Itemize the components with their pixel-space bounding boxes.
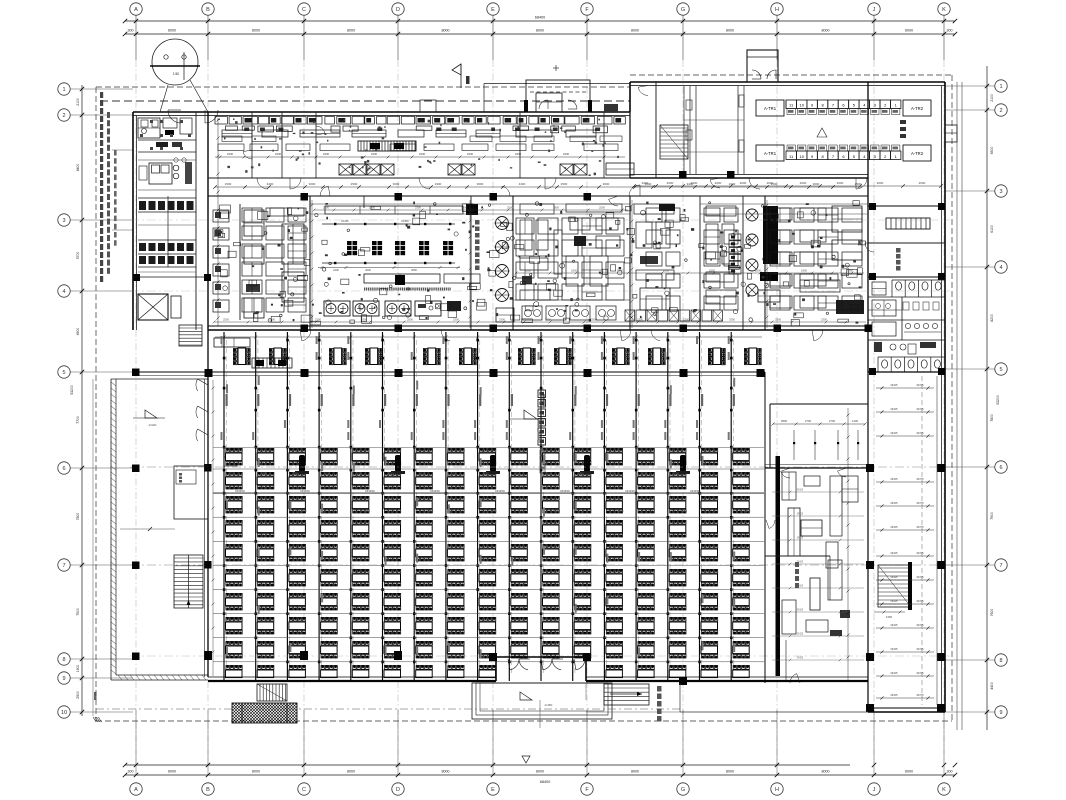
dining table row 9 xyxy=(226,641,750,658)
svg-text:E: E xyxy=(491,787,495,793)
svg-text:1: 1 xyxy=(999,84,1002,90)
kitchen south wall xyxy=(208,325,872,333)
svg-text:2300: 2300 xyxy=(681,509,688,513)
bottom dimension lines xyxy=(123,710,957,784)
svg-text:3300: 3300 xyxy=(371,152,378,156)
svg-text:8: 8 xyxy=(62,657,65,663)
bottom axis bubbles xyxy=(130,783,950,795)
svg-text:1500: 1500 xyxy=(225,182,232,186)
roof overhang dashed outline xyxy=(96,75,962,730)
svg-text:1900: 1900 xyxy=(729,182,736,186)
svg-text:3300: 3300 xyxy=(775,318,781,322)
svg-text:9: 9 xyxy=(62,676,65,682)
svg-text:1800: 1800 xyxy=(663,269,669,273)
svg-text:53200: 53200 xyxy=(70,385,74,395)
svg-text:2500: 2500 xyxy=(407,318,413,322)
dining south wall east segment xyxy=(586,677,868,681)
svg-text:2900: 2900 xyxy=(76,691,80,699)
left bottom hatch mark xyxy=(93,692,101,722)
svg-text:DN25: DN25 xyxy=(797,513,804,516)
electrical block door arcs xyxy=(638,86,867,190)
east kitchen counter grid xyxy=(646,208,862,310)
drawing frame grid xyxy=(123,16,957,765)
svg-text:2300: 2300 xyxy=(514,472,520,476)
svg-text:3000: 3000 xyxy=(477,182,484,186)
svg-text:DN50: DN50 xyxy=(401,219,409,223)
transformer row A-TR1 xyxy=(756,100,931,116)
svg-text:7: 7 xyxy=(999,563,1002,569)
svg-text:DN75: DN75 xyxy=(917,525,924,529)
svg-text:DN75: DN75 xyxy=(917,551,924,555)
svg-text:4400: 4400 xyxy=(990,682,994,690)
svg-text:2: 2 xyxy=(62,113,65,119)
svg-text:2300: 2300 xyxy=(237,509,244,513)
svg-text:DN25: DN25 xyxy=(797,633,804,636)
svg-text:3000: 3000 xyxy=(309,182,316,186)
svg-text:8000: 8000 xyxy=(822,770,830,774)
west wing stall band 2 xyxy=(138,240,196,267)
kitchen striped counter xyxy=(358,141,416,151)
svg-text:H: H xyxy=(775,787,779,793)
elevator shaft xyxy=(138,294,181,320)
svg-text:6000: 6000 xyxy=(905,770,913,774)
svg-text:DN25: DN25 xyxy=(891,407,898,411)
west terrace edge hatch xyxy=(111,382,206,680)
dining south wall west segment xyxy=(208,677,496,681)
svg-text:2500: 2500 xyxy=(351,182,358,186)
svg-text:E: E xyxy=(491,7,495,13)
svg-text:1800: 1800 xyxy=(269,318,275,322)
heavy equipment dark band east kitchen xyxy=(659,204,780,302)
svg-text:B: B xyxy=(206,787,210,793)
svg-text:2500: 2500 xyxy=(771,182,778,186)
svg-text:3300: 3300 xyxy=(275,152,282,156)
electrical block corridor shafts xyxy=(684,86,744,174)
kitchen north equipment row xyxy=(225,126,607,133)
dining slope arrow xyxy=(510,410,545,419)
svg-text:1800: 1800 xyxy=(461,206,467,210)
svg-text:1800: 1800 xyxy=(553,206,559,210)
svg-text:8000: 8000 xyxy=(536,29,544,33)
svg-text:DN25: DN25 xyxy=(891,501,898,505)
svg-text:2500: 2500 xyxy=(507,206,513,210)
steam room label column xyxy=(475,220,480,270)
southwest exterior stair hatched block xyxy=(208,703,333,723)
dining upper table row xyxy=(233,348,761,365)
svg-text:2300: 2300 xyxy=(705,472,711,476)
dining pipe text specks xyxy=(226,376,735,658)
svg-text:2300: 2300 xyxy=(453,318,459,322)
east corridor walls xyxy=(868,372,945,712)
svg-text:6500: 6500 xyxy=(990,147,994,155)
svg-text:2300: 2300 xyxy=(369,206,375,210)
electrical room walls xyxy=(630,82,868,178)
svg-text:DN25: DN25 xyxy=(797,537,804,540)
svg-text:2500: 2500 xyxy=(709,269,715,273)
svg-text:3300: 3300 xyxy=(563,152,570,156)
svg-text:3300: 3300 xyxy=(419,152,426,156)
kitchen X-box equipment row xyxy=(339,163,634,175)
svg-text:2300: 2300 xyxy=(293,472,299,476)
svg-text:DN25: DN25 xyxy=(891,525,898,529)
svg-text:2500: 2500 xyxy=(855,182,862,186)
prep room counter grid west xyxy=(242,208,306,312)
svg-text:2000: 2000 xyxy=(667,181,674,185)
svg-text:2300: 2300 xyxy=(744,509,751,513)
building outer wall west wing xyxy=(133,112,137,330)
svg-text:8000: 8000 xyxy=(536,770,544,774)
stove row xyxy=(324,301,461,316)
svg-text:A-TR2: A-TR2 xyxy=(911,151,924,156)
svg-text:2000: 2000 xyxy=(877,181,884,185)
svg-text:300: 300 xyxy=(128,770,134,774)
svg-text:3000: 3000 xyxy=(813,182,820,186)
svg-text:6: 6 xyxy=(62,466,65,472)
svg-text:2500: 2500 xyxy=(755,269,761,273)
svg-text:DN75: DN75 xyxy=(917,431,924,435)
svg-text:10: 10 xyxy=(61,710,67,716)
svg-text:2300: 2300 xyxy=(315,318,321,322)
svg-text:DN150: DN150 xyxy=(690,489,700,493)
dining table row 8 xyxy=(226,617,750,634)
svg-text:DN150: DN150 xyxy=(300,489,310,493)
southeast room riser lines xyxy=(793,430,859,460)
svg-text:2300: 2300 xyxy=(578,472,584,476)
svg-text:1800: 1800 xyxy=(525,269,531,273)
southeast vertical dim column xyxy=(847,408,850,680)
cooking island equipment clusters xyxy=(347,241,453,255)
svg-text:1: 1 xyxy=(62,87,65,93)
svg-text:-0.020: -0.020 xyxy=(148,423,157,427)
svg-text:J: J xyxy=(873,7,876,13)
southeast room partition wall xyxy=(765,556,830,600)
svg-text:DN25: DN25 xyxy=(797,561,804,564)
kitchen right rooms xyxy=(634,204,864,314)
svg-text:DN75: DN75 xyxy=(917,671,924,675)
svg-text:8000: 8000 xyxy=(252,770,260,774)
kitchen dim row mid xyxy=(215,152,625,159)
svg-text:2700: 2700 xyxy=(805,419,812,423)
svg-text:8: 8 xyxy=(999,658,1002,664)
prep room west fixtures xyxy=(213,208,304,318)
mid kitchen counter grid xyxy=(516,218,624,300)
dining table row 7 xyxy=(226,593,750,610)
svg-text:2300: 2300 xyxy=(610,472,616,476)
east corridor columns xyxy=(866,464,945,712)
svg-text:6: 6 xyxy=(999,465,1002,471)
east exterior door landing xyxy=(945,125,957,142)
kitchen scattered fittings xyxy=(215,118,866,325)
terrace columns xyxy=(132,369,212,661)
kitchen corridor wall columns xyxy=(301,171,735,201)
svg-text:1800: 1800 xyxy=(571,269,577,273)
kitchen corridor dimension string xyxy=(213,182,862,189)
svg-text:7: 7 xyxy=(62,563,65,569)
right dimension column xyxy=(945,66,1001,730)
svg-text:2: 2 xyxy=(999,108,1002,114)
svg-text:2300: 2300 xyxy=(229,472,235,476)
svg-text:2300: 2300 xyxy=(617,509,624,513)
svg-text:DN150: DN150 xyxy=(235,489,245,493)
svg-text:300: 300 xyxy=(947,770,953,774)
dining riser valve dots xyxy=(223,339,733,663)
svg-text:H: H xyxy=(775,7,779,13)
svg-text:2300: 2300 xyxy=(673,472,679,476)
cooking hall pipe line upper xyxy=(322,219,455,225)
west wing column row xyxy=(133,274,211,281)
southeast room outline xyxy=(765,372,868,683)
svg-text:DN25: DN25 xyxy=(891,647,898,651)
svg-text:DN75: DN75 xyxy=(917,575,924,579)
svg-text:2100: 2100 xyxy=(990,94,994,102)
svg-text:2500: 2500 xyxy=(223,318,229,322)
svg-text:2300: 2300 xyxy=(546,472,552,476)
west wing entrance door xyxy=(168,110,218,123)
svg-text:K: K xyxy=(942,787,946,793)
toilet stall row north xyxy=(868,280,945,297)
entrance porch xyxy=(472,683,612,728)
svg-text:8200: 8200 xyxy=(990,314,994,322)
svg-text:3400: 3400 xyxy=(519,182,526,186)
svg-text:DN75: DN75 xyxy=(917,623,924,627)
svg-text:6000: 6000 xyxy=(168,29,176,33)
dishwash line column xyxy=(729,234,741,274)
svg-text:DN75: DN75 xyxy=(917,501,924,505)
svg-text:7600: 7600 xyxy=(990,609,994,617)
top axis bubbles xyxy=(130,3,950,15)
cooking hall top shelf xyxy=(325,204,478,215)
dining upper dim string xyxy=(215,336,762,339)
svg-text:2000: 2000 xyxy=(919,181,926,185)
svg-text:3300: 3300 xyxy=(467,152,474,156)
svg-text:2300: 2300 xyxy=(451,472,457,476)
svg-text:7500: 7500 xyxy=(76,608,80,616)
svg-text:8000: 8000 xyxy=(442,29,450,33)
dining column radiator blobs xyxy=(295,455,690,474)
svg-text:DN25: DN25 xyxy=(891,551,898,555)
svg-text:10: 10 xyxy=(799,154,804,159)
southeast room fixtures xyxy=(786,476,850,683)
svg-text:C: C xyxy=(302,787,306,793)
dining pipe labels upper xyxy=(226,394,735,406)
svg-text:53200: 53200 xyxy=(996,395,1000,405)
svg-text:7800: 7800 xyxy=(990,414,994,422)
svg-text:1900: 1900 xyxy=(76,665,80,673)
svg-text:4600: 4600 xyxy=(365,268,371,272)
dining west dim string xyxy=(212,380,215,676)
kitchen inner dim strings horizontal xyxy=(213,206,866,324)
svg-text:DN75: DN75 xyxy=(917,693,924,697)
terrace stair xyxy=(174,555,203,608)
svg-text:1400: 1400 xyxy=(852,419,859,423)
left axis bubbles xyxy=(58,83,70,718)
svg-text:2300: 2300 xyxy=(364,509,371,513)
svg-text:2500: 2500 xyxy=(561,182,568,186)
svg-text:A-TR1: A-TR1 xyxy=(764,106,777,111)
svg-text:DN150: DN150 xyxy=(495,489,505,493)
kitchen hall shelf lines xyxy=(310,204,868,214)
svg-text:4: 4 xyxy=(999,265,1002,271)
svg-text:DN25: DN25 xyxy=(891,693,898,697)
svg-text:4: 4 xyxy=(62,289,65,295)
svg-text:2300: 2300 xyxy=(641,472,647,476)
svg-text:K: K xyxy=(942,7,946,13)
svg-text:B: B xyxy=(206,7,210,13)
svg-text:3300: 3300 xyxy=(323,152,330,156)
svg-text:2100: 2100 xyxy=(76,98,80,106)
west wing stall band 1 xyxy=(138,198,196,212)
mid kitchen room 2 xyxy=(566,196,622,286)
svg-text:6000: 6000 xyxy=(905,29,913,33)
AHU room label xyxy=(865,243,901,271)
svg-text:300: 300 xyxy=(128,29,134,33)
svg-text:DN150: DN150 xyxy=(560,489,570,493)
svg-text:3800: 3800 xyxy=(781,419,788,423)
svg-text:68400: 68400 xyxy=(535,16,546,20)
east corridor stair xyxy=(874,562,912,619)
svg-text:DN75: DN75 xyxy=(917,477,924,481)
svg-text:DN25: DN25 xyxy=(797,489,804,492)
dining table row 4 xyxy=(226,520,750,537)
svg-text:2300: 2300 xyxy=(415,206,421,210)
west wing corridor wall xyxy=(196,112,208,330)
svg-text:6000: 6000 xyxy=(168,770,176,774)
left margin annotation text column xyxy=(100,92,133,282)
svg-text:5: 5 xyxy=(999,367,1002,373)
svg-text:8000: 8000 xyxy=(347,770,355,774)
kitchen north equipment cell band xyxy=(215,117,625,125)
svg-text:2300: 2300 xyxy=(499,318,505,322)
svg-text:DN75: DN75 xyxy=(917,599,924,603)
svg-text:C: C xyxy=(302,7,306,13)
cleaning room on terrace xyxy=(174,466,208,519)
svg-text:DN25: DN25 xyxy=(891,477,898,481)
svg-text:DN25: DN25 xyxy=(891,575,898,579)
svg-text:300: 300 xyxy=(947,29,953,33)
west wing store room xyxy=(149,162,192,184)
serving counter west xyxy=(214,338,292,368)
kitchen north counters second row xyxy=(222,130,596,137)
kitchen south cell row xyxy=(625,310,723,321)
southeast room inner walls xyxy=(765,456,868,676)
mid kitchen room fixtures xyxy=(513,204,630,320)
svg-text:DN75: DN75 xyxy=(917,647,924,651)
svg-text:DN25: DN25 xyxy=(891,431,898,435)
terrace grid stub lines xyxy=(120,527,175,531)
svg-text:DN25: DN25 xyxy=(891,671,898,675)
svg-text:2700: 2700 xyxy=(829,419,836,423)
svg-text:2300: 2300 xyxy=(821,318,827,322)
southeast room dim string xyxy=(771,419,866,426)
svg-text:DN75: DN75 xyxy=(917,407,924,411)
svg-text:2300: 2300 xyxy=(427,509,434,513)
west terrace outline xyxy=(111,379,208,680)
dining table row 1 xyxy=(226,448,750,465)
svg-text:A: A xyxy=(134,7,138,13)
roof shaft protrusion xyxy=(747,50,778,82)
svg-text:2300: 2300 xyxy=(300,509,307,513)
svg-text:2500: 2500 xyxy=(591,318,597,322)
svg-text:A-TR1: A-TR1 xyxy=(764,151,777,156)
dining horizontal pipe lines xyxy=(213,448,764,662)
dining table row 2 xyxy=(226,472,750,489)
kitchen partition walls xyxy=(240,82,868,372)
north elevation flag marker xyxy=(452,64,470,88)
cooking hall pipe line lower xyxy=(318,262,460,272)
steam kettles xyxy=(494,217,514,323)
svg-text:3: 3 xyxy=(999,189,1002,195)
svg-text:7900: 7900 xyxy=(990,512,994,520)
svg-text:3000: 3000 xyxy=(393,182,400,186)
right wing room walls xyxy=(868,203,945,280)
kitchen vertical dim strings xyxy=(311,200,769,328)
svg-text:8000: 8000 xyxy=(347,29,355,33)
south columns row xyxy=(204,651,687,685)
kitchen north partitions xyxy=(243,112,604,178)
svg-text:1350: 1350 xyxy=(886,615,893,619)
svg-text:8000: 8000 xyxy=(631,29,639,33)
svg-text:10: 10 xyxy=(799,103,804,108)
svg-text:2000: 2000 xyxy=(740,181,747,185)
svg-text:G: G xyxy=(681,787,685,793)
svg-text:A: A xyxy=(134,787,138,793)
svg-text:D: D xyxy=(396,787,400,793)
svg-text:1:50: 1:50 xyxy=(173,72,179,76)
terrace small box xyxy=(224,457,237,466)
southeast porch outline xyxy=(96,683,868,712)
svg-text:DN25: DN25 xyxy=(797,657,804,660)
dining riser rotated labels xyxy=(221,336,730,440)
svg-text:3650: 3650 xyxy=(411,268,417,272)
west wing top washroom fixtures xyxy=(138,118,196,152)
dining bay dim labels xyxy=(229,472,751,514)
kitchen door arcs on corridor xyxy=(257,178,720,196)
svg-text:6100: 6100 xyxy=(990,225,994,233)
svg-text:8000: 8000 xyxy=(442,770,450,774)
svg-text:5: 5 xyxy=(62,370,65,376)
svg-text:3300: 3300 xyxy=(515,152,522,156)
southeast room extra fixtures xyxy=(766,468,864,661)
svg-text:2000: 2000 xyxy=(800,181,807,185)
east corridor dim strings xyxy=(876,376,937,705)
west wing dimension ticks xyxy=(216,118,219,326)
svg-text:8000: 8000 xyxy=(726,770,734,774)
svg-text:DN25: DN25 xyxy=(797,609,804,612)
electrical block north wall xyxy=(630,82,945,112)
svg-text:3300: 3300 xyxy=(729,318,735,322)
toilet stall row south xyxy=(868,357,945,375)
svg-text:2300: 2300 xyxy=(490,509,497,513)
svg-text:9: 9 xyxy=(999,710,1002,716)
stair flight in electrical block xyxy=(660,125,688,159)
svg-text:2300: 2300 xyxy=(419,472,425,476)
svg-text:DN150: DN150 xyxy=(365,489,375,493)
kitchen corridor south wall xyxy=(208,178,868,196)
svg-text:2000: 2000 xyxy=(715,181,722,185)
dining table row 3 xyxy=(226,496,750,513)
svg-text:2500: 2500 xyxy=(599,206,605,210)
cooking island counter xyxy=(364,274,480,285)
wok room xyxy=(706,206,758,304)
main entrance vestibule xyxy=(496,657,586,681)
right axis bubbles xyxy=(995,80,1007,718)
east entrance ramp xyxy=(604,684,662,722)
distribution room label xyxy=(817,120,906,138)
svg-text:2300: 2300 xyxy=(261,472,267,476)
west wing extra partitions xyxy=(138,120,196,272)
terrace slope arrow xyxy=(133,410,165,427)
left dimension column xyxy=(70,85,133,716)
